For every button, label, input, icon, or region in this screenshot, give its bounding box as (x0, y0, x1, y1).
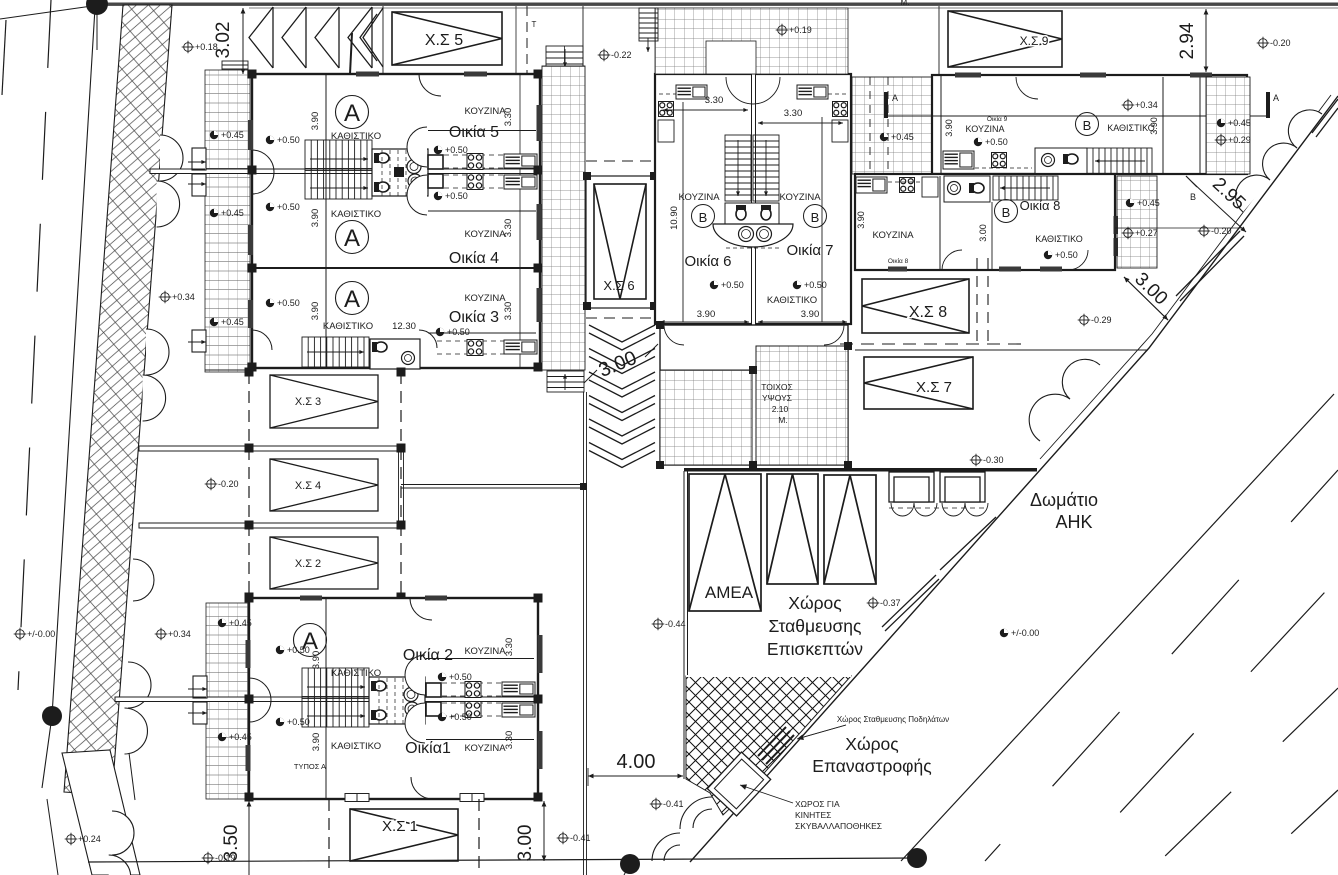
kitchen zone boundary lines houses 5/4 (428, 130, 536, 132)
svg-text:Χ.Σ 4: Χ.Σ 4 (295, 480, 321, 492)
svg-text:ΚΑΘΙΣΤΙΚΟ: ΚΑΘΙΣΤΙΚΟ (331, 741, 381, 752)
svg-text:Οικία 2: Οικία 2 (403, 647, 453, 664)
svg-text:ΥΨΟΥΣ: ΥΨΟΥΣ (762, 393, 792, 403)
west wall visitor area (683, 471, 685, 779)
svg-text:+0.50: +0.50 (445, 145, 468, 155)
house 8 outer walls (855, 174, 1115, 270)
svg-text:3.90: 3.90 (310, 209, 321, 228)
svg-text:ΚΟΥΖΙΝΑ: ΚΟΥΖΙΝΑ (464, 646, 506, 657)
plot boundary diagonal (690, 96, 1338, 862)
shrubs along boundary (652, 110, 1322, 861)
svg-text:Οικία1: Οικία1 (405, 740, 451, 757)
dim 2.94 (1205, 9, 1207, 72)
svg-text:3.90: 3.90 (310, 302, 321, 321)
svg-text:A: A (344, 100, 360, 127)
dim 3.30 lines (519, 74, 521, 368)
svg-text:+0.27: +0.27 (1135, 228, 1158, 238)
bathroom door arcs (407, 127, 427, 167)
svg-text:3.90: 3.90 (944, 119, 954, 137)
ramp chevrons west (pointing left) (249, 7, 383, 68)
svg-text:ΚΟΥΖΙΝΑ: ΚΟΥΖΙΝΑ (464, 106, 506, 117)
svg-text:B: B (1083, 118, 1092, 133)
svg-text:Οικία 7: Οικία 7 (786, 242, 833, 259)
paved walkway west of houses 1-2 (206, 603, 248, 799)
central tiled walkway strip (542, 66, 585, 370)
svg-text:+0.34: +0.34 (1135, 100, 1158, 110)
house 9 kitchen strip (943, 151, 974, 169)
house 8 interior wall (939, 176, 941, 270)
svg-text:Οικία 4: Οικία 4 (449, 250, 499, 267)
svg-text:ΤΟΙΧΟΣ: ΤΟΙΧΟΣ (761, 382, 793, 392)
stairs house2 (302, 668, 369, 699)
walkway line to parking lanes (401, 484, 583, 486)
svg-text:Σταθμευσης: Σταθμευσης (769, 616, 862, 636)
svg-text:+0.29: +0.29 (1228, 135, 1251, 145)
walkway corridor double lines (583, 392, 585, 875)
door arc top wall house5 (419, 74, 441, 96)
svg-text:+0.45: +0.45 (1137, 198, 1160, 208)
paved walkway (tiled strip) west of houses 3-5 (205, 70, 250, 372)
door arc house 9 (1016, 77, 1038, 99)
house 8 stair (993, 176, 1058, 200)
svg-text:-0.22: -0.22 (611, 50, 632, 60)
svg-text:-0.37: -0.37 (880, 598, 901, 608)
svg-text:ΚΟΥΖΙΝΑ: ΚΟΥΖΙΝΑ (779, 192, 821, 203)
svg-text:ΚΑΘΙΣΤΙΚΟ: ΚΑΘΙΣΤΙΚΟ (331, 209, 381, 220)
svg-text:B: B (811, 210, 820, 225)
svg-text:ΚΟΥΖΙΝΑ: ΚΟΥΖΙΝΑ (678, 192, 720, 203)
svg-text:Χ.Σ 1: Χ.Σ 1 (382, 818, 418, 835)
boundary fence band bottom-left (62, 750, 140, 875)
svg-text:+0.50: +0.50 (721, 280, 744, 290)
svg-text:ΚΙΝΗΤΕΣ: ΚΙΝΗΤΕΣ (795, 810, 831, 820)
tiled forecourt above houses 6/7 (655, 8, 848, 74)
svg-text:ΚΟΥΖΙΝΑ: ΚΟΥΖΙΝΑ (966, 124, 1005, 134)
svg-text:+0.45: +0.45 (891, 132, 914, 142)
svg-text:+0.19: +0.19 (789, 25, 812, 35)
central stairs houses 6/7 (725, 135, 751, 201)
svg-text:+0.50: +0.50 (447, 327, 470, 337)
wall house4/3 (252, 267, 540, 269)
dim 3.00 diagonal (1124, 277, 1168, 320)
parking X.S 6 frame (586, 176, 655, 308)
party wall house5/4 (150, 169, 540, 174)
svg-text:B: B (699, 210, 708, 225)
svg-text:3.90: 3.90 (801, 309, 820, 320)
svg-text:+0.45: +0.45 (229, 732, 252, 742)
window markers house 9 (955, 73, 1212, 78)
interior partitions houses 6/7 (682, 102, 684, 322)
stairs house3 (302, 337, 369, 367)
south boundary line (88, 858, 917, 862)
shrubs along verge (160, 135, 183, 181)
west porches (192, 148, 206, 352)
svg-text:+0.50: +0.50 (985, 137, 1008, 147)
svg-text:Επαναστροφής: Επαναστροφής (812, 756, 931, 776)
kitchen fixtures house 7 (797, 85, 828, 99)
svg-text:2.10: 2.10 (772, 404, 789, 414)
connector column double line (398, 448, 400, 525)
svg-text:Χώρος: Χώρος (845, 734, 898, 754)
parking X.S 2 (270, 537, 378, 589)
svg-text:2.94: 2.94 (1177, 22, 1198, 59)
svg-text:ΤΥΠΟΣ Α: ΤΥΠΟΣ Α (294, 762, 326, 771)
svg-text:ΣΚΥΒΑΛΛΑΠΟΘΗΚΕΣ: ΣΚΥΒΑΛΛΑΠΟΘΗΚΕΣ (795, 821, 882, 831)
survey dot top-left (86, 0, 108, 15)
svg-text:10.90: 10.90 (669, 206, 680, 230)
bins annotation (795, 799, 882, 831)
svg-text:Χ.Σ 3: Χ.Σ 3 (295, 396, 321, 408)
svg-text:3.00: 3.00 (978, 224, 988, 242)
svg-text:4.00: 4.00 (617, 751, 656, 773)
dashed access line (586, 160, 680, 162)
small entry stair NW of house 5 (222, 61, 248, 74)
parking X.S 3 (270, 375, 378, 428)
door arc top wall house2 (410, 598, 432, 620)
visitor stall 2 (767, 474, 818, 584)
entry thresholds houses 5/4 (428, 155, 443, 169)
tiled strip east of house 8 (1117, 176, 1157, 268)
parking X.S 5 (392, 12, 502, 65)
tiled court west of house 9 (852, 77, 932, 174)
stairs house4 (305, 169, 372, 200)
svg-text:Δωμάτιο: Δωμάτιο (1030, 490, 1098, 510)
svg-text:-0.29: -0.29 (1091, 315, 1112, 325)
mid stair on strip (547, 371, 584, 392)
svg-text:+0.50: +0.50 (287, 717, 310, 727)
svg-text:Επισκεπτών: Επισκεπτών (767, 639, 863, 659)
guard rails along boundary (882, 99, 1338, 631)
house 9 interior (940, 75, 942, 174)
dim 3.00 south (543, 801, 545, 830)
walkway from road to houses 3-5 (150, 168, 205, 170)
house 4 labels (336, 221, 369, 254)
svg-text:+0.50: +0.50 (277, 135, 300, 145)
lane dashed lines (248, 372, 250, 598)
parking X.S 9 (948, 11, 1062, 67)
svg-text:-0.44: -0.44 (665, 619, 686, 629)
svg-text:Χ.Σ 5: Χ.Σ 5 (425, 32, 463, 49)
svg-text:3.90: 3.90 (856, 211, 866, 229)
svg-text:ΚΑΘΙΣΤΙΚΟ: ΚΑΘΙΣΤΙΚΟ (767, 295, 817, 306)
dim 3.50 (248, 801, 250, 875)
svg-text:+/-0.00: +/-0.00 (27, 629, 55, 639)
svg-text:ΑΜΕΑ: ΑΜΕΑ (705, 583, 754, 602)
window markers houses 1-2 (246, 596, 543, 802)
bathrooms houses 5/4 (372, 149, 428, 196)
house 9 stair (1087, 148, 1152, 174)
visitor parking top wall (684, 468, 1037, 472)
ramp chevrons south (pointing down) (589, 325, 655, 468)
svg-text:3.90: 3.90 (311, 651, 322, 670)
connector walls (139, 446, 401, 528)
planters NE of visitor area (889, 472, 985, 502)
road top edge line (95, 3, 1338, 6)
svg-text:+0.34: +0.34 (168, 629, 191, 639)
party wall 6/7 (752, 74, 756, 466)
svg-text:Οικία 5: Οικία 5 (449, 124, 499, 141)
kitchen fixtures house 6 (676, 85, 707, 99)
svg-text:3.30: 3.30 (784, 108, 803, 119)
parking X.S 8 (862, 279, 969, 333)
svg-text:Οικία 3: Οικία 3 (449, 309, 499, 326)
walkway from road to houses 1-2 (115, 696, 206, 698)
road centre dashed line (18, 0, 51, 690)
parking AMEA (689, 474, 761, 611)
svg-text:Χ.Σ 7: Χ.Σ 7 (916, 379, 952, 396)
entry door arcs houses 2/1 (249, 678, 271, 700)
bin enclosure (707, 752, 770, 816)
house 5 labels (336, 96, 369, 129)
svg-text:-0.41: -0.41 (570, 833, 591, 843)
svg-text:Οικία 9: Οικία 9 (987, 115, 1008, 123)
svg-text:+0.50: +0.50 (277, 298, 300, 308)
svg-text:ΚΟΥΖΙΝΑ: ΚΟΥΖΙΝΑ (464, 743, 506, 754)
svg-text:Οικία 8: Οικία 8 (888, 257, 909, 265)
svg-text:+0.50: +0.50 (277, 202, 300, 212)
svg-text:Χ.Σ 2: Χ.Σ 2 (295, 558, 321, 570)
svg-text:Οικία 6: Οικία 6 (684, 253, 731, 270)
svg-text:3.30: 3.30 (503, 302, 514, 321)
survey dot west kerb (42, 706, 62, 726)
svg-text:ΚΑΘΙΣΤΙΚΟ: ΚΑΘΙΣΤΙΚΟ (1035, 234, 1083, 244)
house 3 labels (336, 282, 369, 315)
dashed lane lines X.S8 (976, 258, 978, 345)
corridor edge line top (582, 6, 584, 66)
west porches houses 1-2 (193, 676, 207, 724)
houses 6/7 outer walls (655, 74, 851, 324)
svg-text:Οικία 8: Οικία 8 (1020, 198, 1061, 213)
parking X.S 7 (864, 357, 973, 409)
window markers house 8 (888, 267, 1062, 272)
svg-text:B: B (1190, 192, 1196, 202)
section line A-A (886, 115, 1268, 117)
svg-text:-0.20: -0.20 (1270, 38, 1291, 48)
entry door arcs houses 3-5 (252, 150, 274, 172)
svg-text:Χ.Σ 8: Χ.Σ 8 (909, 304, 947, 321)
structural columns (248, 70, 257, 79)
structural columns houses 1-2 (245, 594, 254, 603)
svg-text:3.02: 3.02 (213, 22, 234, 59)
road centre dashes SE (985, 470, 1338, 861)
stairs house1 (302, 697, 369, 728)
toilets houses 6/7 (725, 203, 779, 225)
house 8 bath (944, 176, 990, 202)
svg-text:-0.20: -0.20 (218, 479, 239, 489)
parking X.S 4 (270, 459, 378, 511)
visitor stall 3 (824, 475, 876, 584)
interior wall x326 (325, 74, 327, 368)
svg-text:12.30: 12.30 (392, 321, 416, 332)
door arcs top houses 6/7 (726, 77, 753, 104)
svg-text:-0.19: -0.19 (215, 853, 236, 863)
svg-text:3.30: 3.30 (504, 731, 515, 750)
kitchen zone boundary house 3 (428, 332, 536, 334)
house 9 outer walls (932, 75, 1247, 174)
svg-text:Χ.Σ 9: Χ.Σ 9 (1020, 34, 1049, 48)
svg-text:ΧΩΡΟΣ ΓΙΑ: ΧΩΡΟΣ ΓΙΑ (795, 799, 840, 809)
SE road kerb (901, 394, 1334, 861)
kitchen house3 counter (437, 341, 536, 354)
wall height note (761, 382, 793, 425)
rear rooms houses 6/7 (660, 325, 848, 465)
svg-text:ΚΑΘΙΣΤΙΚΟ: ΚΑΘΙΣΤΙΚΟ (331, 131, 381, 142)
svg-text:ΑΗΚ: ΑΗΚ (1055, 512, 1092, 532)
svg-text:ΚΑΘΙΣΤΙΚΟ: ΚΑΘΙΣΤΙΚΟ (331, 668, 381, 679)
svg-text:ΚΑΘΙΣΤΙΚΟ: ΚΑΘΙΣΤΙΚΟ (323, 321, 373, 332)
svg-text:Χ.Σ 6: Χ.Σ 6 (603, 278, 634, 293)
dim 3.02 (242, 8, 244, 74)
svg-text:+0.18: +0.18 (195, 42, 218, 52)
svg-text:3.90: 3.90 (311, 733, 322, 752)
svg-text:+0.45: +0.45 (221, 208, 244, 218)
interior wall (325, 598, 327, 799)
svg-text:+0.50: +0.50 (445, 191, 468, 201)
kitchen counters houses 2/1 (442, 683, 534, 716)
svg-text:B: B (1002, 205, 1011, 220)
svg-text:ΚΑΘΙΣΤΙΚΟ: ΚΑΘΙΣΤΙΚΟ (1107, 123, 1155, 133)
svg-text:+0.45: +0.45 (1228, 118, 1251, 128)
level markers houses 1-2 (218, 619, 226, 627)
svg-text:+0.50: +0.50 (287, 645, 310, 655)
svg-text:-0.30: -0.30 (983, 455, 1004, 465)
bathroom house3 (370, 339, 420, 369)
stairs house5 (305, 140, 372, 171)
house 8 kitchen fixtures (856, 177, 887, 193)
svg-text:-0.41: -0.41 (663, 799, 684, 809)
svg-text:Μ.: Μ. (901, 0, 910, 7)
svg-text:ΚΟΥΖΙΝΑ: ΚΟΥΖΙΝΑ (464, 229, 506, 240)
fence segment NW (348, 33, 352, 115)
svg-text:-0.20: -0.20 (1211, 226, 1232, 236)
entry stair top-centre (546, 46, 583, 70)
svg-text:Χώρος: Χώρος (788, 593, 841, 613)
svg-text:3.30: 3.30 (504, 638, 515, 657)
bicycle stands (758, 727, 794, 764)
svg-text:Χώρος Σταθμευσης Ποδηλάτων: Χώρος Σταθμευσης Ποδηλάτων (837, 715, 949, 724)
svg-text:+0.50: +0.50 (449, 672, 472, 682)
svg-text:3.90: 3.90 (310, 112, 321, 131)
svg-text:+0.45: +0.45 (221, 130, 244, 140)
party wall house2/1 (115, 697, 538, 702)
road west kerb line (42, 8, 95, 788)
svg-text:T: T (532, 20, 537, 29)
svg-text:+0.45: +0.45 (221, 317, 244, 327)
dashed line T (526, 6, 528, 74)
turn-around area crosshatch (686, 676, 851, 815)
entry stair NE of strip (639, 8, 658, 41)
kitchen counters houses 5/4 (dashed) (444, 155, 536, 188)
dim 2.95 diagonal (1192, 182, 1246, 232)
svg-text:A: A (1273, 93, 1279, 103)
svg-text:A: A (344, 225, 360, 252)
svg-text:A: A (892, 93, 898, 103)
svg-text:3.90: 3.90 (1149, 117, 1159, 135)
svg-text:A: A (344, 286, 360, 313)
svg-text:+0.24: +0.24 (78, 834, 101, 844)
house 2 labels (294, 624, 327, 657)
entry thresholds houses 2/1 (426, 683, 441, 697)
window markers (248, 72, 542, 329)
svg-text:+0.34: +0.34 (172, 292, 195, 302)
svg-text:ΚΟΥΖΙΝΑ: ΚΟΥΖΙΝΑ (872, 230, 914, 241)
tiled strip east of house 9 (1206, 77, 1250, 174)
svg-text:Μ.: Μ. (778, 415, 787, 425)
door arc bottom wall house1 (411, 777, 433, 799)
svg-text:+0.50: +0.50 (449, 712, 472, 722)
svg-text:ΚΟΥΖΙΝΑ: ΚΟΥΖΙΝΑ (464, 293, 506, 304)
houses 3-5 outer walls (252, 74, 540, 368)
level markers houses 3-5 (210, 131, 218, 139)
svg-text:3.00: 3.00 (515, 825, 536, 862)
door arcs house 8 (942, 250, 962, 270)
road hatched verge strip (left) (64, 5, 172, 795)
boundary inner wall (double line) (1040, 95, 1331, 459)
svg-text:+0.50: +0.50 (804, 280, 827, 290)
parking X.S 1 (328, 799, 330, 868)
bathrooms houses 2/1 (369, 677, 425, 724)
twin basin (semicircle) (713, 224, 793, 247)
svg-text:+0.50: +0.50 (1055, 250, 1078, 260)
houses 1-2 outer walls (249, 598, 538, 799)
svg-text:3.30: 3.30 (705, 95, 724, 106)
svg-text:3.90: 3.90 (697, 309, 716, 320)
svg-text:+/-0.00: +/-0.00 (1011, 628, 1039, 638)
parking X.S 6 (594, 184, 646, 299)
kitchen zone boundary lines houses 2/1 (426, 658, 534, 660)
svg-text:+0.45: +0.45 (229, 618, 252, 628)
house 9 bath (1035, 148, 1087, 174)
